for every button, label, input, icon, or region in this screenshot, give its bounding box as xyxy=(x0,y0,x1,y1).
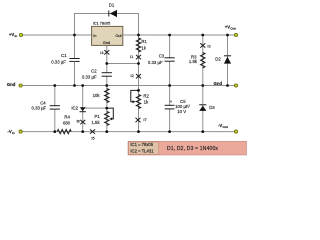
svg-text:in: in xyxy=(15,34,18,38)
wire: ground rail xyxy=(21,85,236,87)
wire: input rail +Vin xyxy=(21,34,92,36)
node: IC2 bottom xyxy=(81,130,84,133)
wire: IC2 ref line xyxy=(84,107,107,109)
svg-text:Gnd: Gnd xyxy=(103,40,110,45)
junction dots xyxy=(53,34,229,133)
wire: C1 column xyxy=(74,35,76,86)
break point I5 xyxy=(90,129,95,140)
diode D1 xyxy=(109,3,117,18)
svg-text:C3: C3 xyxy=(159,53,165,58)
node: D2 top xyxy=(226,34,229,37)
resistor 10k xyxy=(93,89,109,103)
svg-text:1k: 1k xyxy=(144,100,149,105)
svg-text:I4: I4 xyxy=(100,50,104,55)
break point I4 xyxy=(100,50,109,55)
wire: D3 column xyxy=(202,86,204,132)
svg-text:10k: 10k xyxy=(93,93,101,98)
svg-text:D2: D2 xyxy=(215,56,221,61)
diode D2 xyxy=(215,56,231,64)
wire: C3 column xyxy=(169,35,171,86)
node: gnd-pin link left xyxy=(105,62,108,65)
break point I1 xyxy=(130,54,141,59)
capacitor C4 xyxy=(32,101,60,111)
svg-text:10 V: 10 V xyxy=(177,109,186,114)
svg-text:I1: I1 xyxy=(130,54,133,59)
svg-text:I6: I6 xyxy=(76,119,79,124)
svg-text:I3: I3 xyxy=(207,43,210,48)
node: P1 bottom xyxy=(105,130,108,133)
node: R2 top / wiper xyxy=(137,89,140,92)
svg-text:0.33 µF: 0.33 µF xyxy=(32,105,47,110)
terminal Gnd right xyxy=(214,81,238,87)
node: C4 bottom xyxy=(53,130,56,133)
svg-text:Gnd: Gnd xyxy=(7,82,16,87)
terminal +Vout xyxy=(225,25,238,37)
node: gnd-pin link right xyxy=(137,62,140,65)
node: C4 gnd xyxy=(53,84,56,87)
resistor R1 xyxy=(136,38,147,52)
svg-text:0.33 µF: 0.33 µF xyxy=(148,60,163,65)
svg-text:680: 680 xyxy=(63,121,71,126)
node: C2 gnd xyxy=(105,84,108,87)
svg-text:1.8k: 1.8k xyxy=(189,59,198,64)
wire: link Gnd-pin to R1 node xyxy=(107,63,139,65)
wire: R1/R2 column xyxy=(138,35,140,132)
svg-text:Out: Out xyxy=(223,125,228,129)
node: R2 bottom xyxy=(137,130,140,133)
terminal Gnd left xyxy=(7,82,22,87)
svg-text:C2: C2 xyxy=(91,69,97,74)
wire: output rail xyxy=(123,34,236,36)
svg-text:0.33 µF: 0.33 µF xyxy=(51,60,66,65)
svg-text:Out: Out xyxy=(230,26,235,30)
break point I7 xyxy=(136,117,147,122)
capacitor C2 xyxy=(82,69,112,80)
wire: C5 column xyxy=(169,86,171,132)
svg-text:IC2 = TL431: IC2 = TL431 xyxy=(130,149,154,154)
node: C5 bottom xyxy=(168,130,171,133)
svg-text:I2: I2 xyxy=(131,73,134,78)
capacitor C5 (electrolytic) xyxy=(165,99,191,114)
svg-text:0.33 µF: 0.33 µF xyxy=(82,75,97,80)
break point I2 xyxy=(131,73,141,79)
IC1 78x05 regulator box xyxy=(92,22,123,46)
node: D2 gnd xyxy=(226,84,229,87)
svg-text:IC1 78x05: IC1 78x05 xyxy=(93,22,111,26)
node: D1/R1 on output rail xyxy=(137,34,140,37)
terminal -Vout xyxy=(218,123,238,133)
node: P1 top / wiper xyxy=(105,107,108,110)
svg-text:1k: 1k xyxy=(141,46,146,51)
svg-text:R4: R4 xyxy=(64,115,70,120)
node: input/D1/C1 xyxy=(73,34,76,37)
svg-text:1.5k: 1.5k xyxy=(91,120,100,125)
node: R3 top xyxy=(201,34,204,37)
wire: IC1 Gnd pin column xyxy=(106,45,108,85)
svg-text:P1: P1 xyxy=(94,114,100,119)
note box: semiconductor equivalences xyxy=(128,141,247,155)
wire: bottom rail xyxy=(21,131,236,133)
wire: 10k/P1 column xyxy=(106,86,108,132)
wire: C4 column xyxy=(54,86,56,132)
resistor R2 xyxy=(136,94,149,109)
node: IC2 gnd xyxy=(81,84,84,87)
svg-text:I7: I7 xyxy=(143,117,146,122)
wire: D2 column xyxy=(227,35,229,86)
node: D3 bottom xyxy=(201,130,204,133)
svg-text:in: in xyxy=(12,131,15,135)
svg-text:R2: R2 xyxy=(143,94,149,99)
terminal -Vin xyxy=(7,129,22,135)
resistor R3 xyxy=(189,53,205,68)
diode D3 xyxy=(199,105,215,111)
wire: R3 column xyxy=(202,35,204,86)
svg-text:D1: D1 xyxy=(109,3,115,8)
capacitor C3 xyxy=(148,53,175,65)
svg-text:In: In xyxy=(93,33,96,38)
node: C3 top xyxy=(168,34,171,37)
terminal +Vin xyxy=(9,32,23,38)
node: C1 gnd xyxy=(73,84,76,87)
svg-text:I5: I5 xyxy=(91,136,94,141)
wiper arrow of P1 xyxy=(107,108,114,120)
svg-text:Out: Out xyxy=(115,33,122,38)
preset P1 xyxy=(91,111,109,125)
svg-text:IC2: IC2 xyxy=(71,106,78,111)
svg-text:+: + xyxy=(170,99,173,104)
svg-text:Gnd: Gnd xyxy=(214,81,223,86)
IC2 TL431 xyxy=(71,106,86,112)
capacitor C1 xyxy=(51,53,79,64)
svg-text:C1: C1 xyxy=(61,53,67,58)
break point I3 xyxy=(200,43,210,48)
svg-text:R1: R1 xyxy=(141,39,147,44)
svg-text:D1, D2, D3 = 1N400x: D1, D2, D3 = 1N400x xyxy=(167,146,218,152)
svg-text:IC1 = 78x05: IC1 = 78x05 xyxy=(130,142,153,147)
svg-text:D3: D3 xyxy=(209,105,215,110)
node: C3/C5 gnd xyxy=(168,84,171,87)
wire: IC2 column xyxy=(82,86,84,132)
wire: D1 branch loop xyxy=(75,14,139,36)
resistor R4 xyxy=(57,115,71,134)
node: R3/D3 gnd xyxy=(201,84,204,87)
break point I6 xyxy=(76,119,85,125)
wiper arrow of R2 xyxy=(131,90,139,103)
